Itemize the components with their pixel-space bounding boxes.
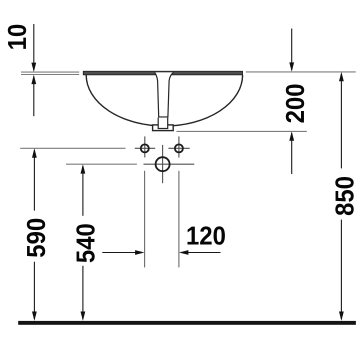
reference line 200 depth below counter	[177, 130, 307, 132]
crosshair right hole vertical	[178, 136, 180, 157]
dim 590 line upper	[33, 150, 35, 210]
reference line 590 (faucet hole height)	[20, 147, 125, 149]
crosshair left hole horizontal	[135, 147, 155, 149]
extension line left hole down	[144, 171, 146, 268]
overflow funnel (section through overflow)	[155, 72, 174, 117]
basin bowl outline	[86, 75, 242, 126]
dim 120 line right	[181, 252, 221, 254]
dim 590 arrow down	[32, 312, 37, 321]
dim 10 arrow up	[31, 75, 36, 84]
dim 10 label	[8, 25, 26, 49]
crosshair left hole vertical	[144, 136, 146, 157]
dim 850 line upper	[340, 74, 342, 169]
dim 590 arrow up	[32, 148, 37, 157]
crosshair drain hole horizontal	[144, 163, 195, 165]
dim 10 line upper	[33, 24, 35, 70]
floor line	[18, 321, 356, 325]
countertop reference line left bottom	[21, 74, 79, 76]
dim 10 line lower	[33, 77, 35, 117]
drain box (waste flange)	[153, 125, 174, 131]
dim 120 arrow left	[179, 250, 188, 255]
dim 590 label	[27, 219, 45, 257]
dim 120 line left	[102, 252, 142, 254]
dim 120 label	[187, 226, 224, 244]
dim 200 line lower	[291, 133, 293, 174]
dim 10 arrow down	[31, 63, 36, 72]
extension line right hole down	[178, 171, 180, 268]
dim 540 arrow up	[81, 164, 86, 173]
dim 540 line upper	[82, 166, 84, 216]
overflow column into drain	[158, 118, 167, 129]
drain hole (large)	[156, 157, 170, 171]
countertop reference line left top	[21, 71, 79, 73]
faucet hole left	[141, 144, 149, 152]
crosshair right hole horizontal	[168, 147, 189, 149]
dim 200 label	[286, 84, 304, 122]
dim 540 label	[76, 224, 94, 262]
dim 850 line lower	[340, 220, 342, 319]
dim 540 line lower	[82, 266, 84, 319]
dim 200 arrow down	[289, 62, 294, 71]
countertop reference line right	[246, 71, 356, 73]
crosshair drain hole vertical	[162, 145, 164, 183]
dim 850 arrow up	[339, 72, 344, 81]
dim 200 line upper	[291, 29, 293, 70]
faucet hole right	[175, 144, 183, 152]
dim 540 arrow down	[81, 312, 86, 321]
dim 200 arrow up	[289, 131, 294, 140]
dim 120 arrow right	[135, 250, 144, 255]
reference line 540 (drain height)	[66, 163, 137, 165]
basin rim (ceramic edge bar)	[83, 71, 242, 75]
dim 590 line lower	[33, 262, 35, 319]
dim 850 label	[335, 177, 353, 215]
dim 850 arrow down	[339, 312, 344, 321]
